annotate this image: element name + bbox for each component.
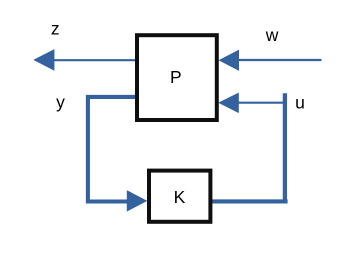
svg-text:u: u xyxy=(295,93,305,113)
wire K output to riser xyxy=(212,199,288,203)
svg-text:w: w xyxy=(265,25,279,45)
wire riser up to u level xyxy=(283,93,287,203)
arrowhead w into P xyxy=(219,50,239,71)
wire u line xyxy=(238,102,284,104)
arrowhead u into P xyxy=(218,93,239,114)
arrowhead z output xyxy=(33,49,54,71)
svg-text:P: P xyxy=(170,67,182,87)
block P box xyxy=(137,35,217,120)
svg-text:K: K xyxy=(174,187,186,207)
svg-text:y: y xyxy=(56,92,65,112)
wire y path P to K xyxy=(88,97,136,202)
wire w line xyxy=(238,59,322,61)
arrowhead y into K xyxy=(127,190,148,211)
svg-text:z: z xyxy=(51,19,60,39)
wire z line xyxy=(54,59,136,61)
block K box xyxy=(149,171,210,222)
